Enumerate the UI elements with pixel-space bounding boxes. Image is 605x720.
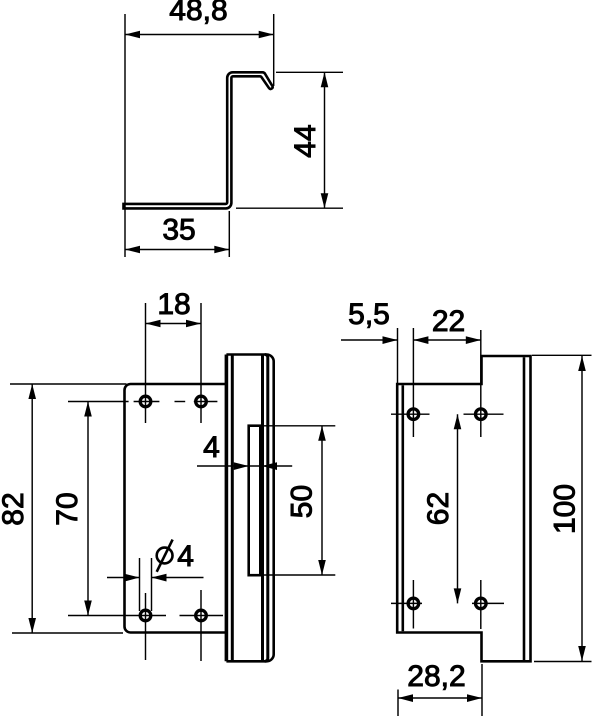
dimension 18 <box>146 323 202 325</box>
extension line right <box>273 14 275 86</box>
svg-text:22: 22 <box>432 305 465 338</box>
dimension 50 <box>261 426 335 575</box>
svg-text:4: 4 <box>177 540 194 573</box>
svg-text:82: 82 <box>0 492 30 525</box>
dimensions 5,5 and 22 <box>341 328 481 437</box>
dimension line <box>125 34 274 36</box>
dimension 28,2 <box>398 664 482 716</box>
centerlines right view <box>391 414 504 629</box>
dimension 100 <box>532 355 592 661</box>
svg-text:44: 44 <box>289 124 322 157</box>
svg-text:100: 100 <box>548 484 581 534</box>
svg-text:70: 70 <box>51 492 84 525</box>
holes left view <box>140 396 206 621</box>
dimension 44 <box>236 72 343 208</box>
slot <box>249 426 261 576</box>
dimension 82 <box>10 384 127 633</box>
svg-text:35: 35 <box>162 214 195 247</box>
dimension 70 <box>87 402 89 616</box>
centerlines left view <box>68 303 223 661</box>
dimension Ø4 <box>107 558 204 611</box>
side flange outline <box>226 355 273 662</box>
holes right view <box>408 409 486 609</box>
svg-text:4: 4 <box>203 431 220 464</box>
dimension 4 (slot width) <box>197 465 292 467</box>
dimension 62 <box>457 414 459 603</box>
dimension 48,8 <box>125 14 274 257</box>
svg-text:62: 62 <box>422 492 455 525</box>
svg-text:50: 50 <box>285 485 318 518</box>
svg-text:18: 18 <box>157 288 190 321</box>
extension line left <box>124 14 126 257</box>
svg-text:5,5: 5,5 <box>348 298 390 331</box>
outline right view <box>397 356 530 661</box>
main plate outline <box>125 384 228 633</box>
svg-text:28,2: 28,2 <box>407 660 465 693</box>
svg-text:48,8: 48,8 <box>169 0 227 27</box>
dimension 35 <box>125 211 229 257</box>
profile outline (sheet cross-section) <box>124 72 273 208</box>
